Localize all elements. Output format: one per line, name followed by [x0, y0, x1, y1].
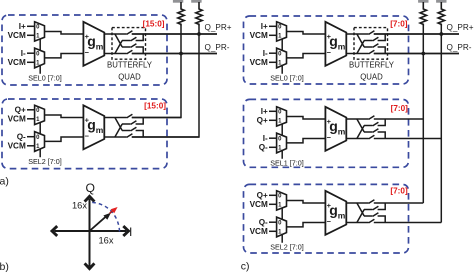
svg-text:VCM: VCM [8, 58, 26, 67]
panel c bottom channel blue dashed box [244, 184, 409, 253]
a-bot input stub Q+ [15, 106, 35, 115]
wire R3 down to c-bot row1 (via c-mid row1 junction) [422, 26, 424, 203]
svg-text:QUAD: QUAD [360, 73, 383, 82]
c-mid mux M2 (2:1, inputs 0/1) [277, 133, 287, 153]
c-mid switch S3 (row3) + wire to row4 [364, 129, 385, 139]
svg-text:16x: 16x [72, 200, 87, 210]
a-top input stub VCM [8, 58, 35, 67]
a-top input stub VCM [8, 31, 35, 40]
a-bot wire gm output row1 [104, 117, 126, 119]
junction R3/Q_PR- (panel c) [421, 52, 425, 56]
a-top wire gm output row4 [104, 53, 126, 55]
c-bot input stub VCM [250, 227, 277, 236]
a-top select line SEL0 [28, 39, 62, 83]
svg-text:−: − [327, 133, 332, 142]
svg-text:[7:0]: [7:0] [390, 19, 408, 28]
a-bot input stub Q- [17, 132, 35, 141]
a-bot input stub VCM [8, 142, 35, 151]
c-mid wire mux M2 output to gm - input [287, 139, 326, 143]
a-top switch S3 (row3) + wire to row4 [122, 44, 143, 54]
svg-text:VCM: VCM [8, 31, 26, 40]
svg-text:c): c) [241, 260, 250, 272]
svg-text:−: − [85, 48, 90, 57]
wire R4 down to c-bot row4 (via c-mid row4 junction) [440, 26, 442, 223]
svg-text:I+: I+ [261, 22, 268, 31]
svg-text:Q_PR+: Q_PR+ [447, 23, 474, 32]
op-amp U3 c-top transconductor gm [325, 22, 346, 66]
a-top mux M1 (2:1, inputs 0/1) [35, 22, 45, 41]
svg-text:[15:0]: [15:0] [144, 101, 166, 110]
panel b I axis [52, 225, 132, 239]
svg-text:SEL0 [7:0]: SEL0 [7:0] [28, 74, 62, 83]
c-top input stub VCM [250, 31, 277, 40]
c-bot switch S3 (row3) + wire to row4 [364, 213, 385, 223]
a-bot wire mux M1 output to gm + input [45, 115, 84, 118]
a-bot switch S1 (row1) [127, 114, 181, 118]
a-bot butterfly cross wires [115, 118, 122, 138]
svg-text:Q+: Q+ [15, 106, 26, 115]
c-bot input stub Q- [259, 218, 277, 227]
c-bot wire mux M1 output to gm + input [287, 201, 326, 204]
c-bot wire gm output row4 [346, 222, 368, 224]
svg-text:Q_PR-: Q_PR- [447, 43, 472, 52]
svg-text:VCM: VCM [8, 115, 26, 124]
c-mid input stub Q+ [257, 116, 277, 125]
c-top wire gm output row1 [346, 33, 368, 35]
node Q_PR- rail (panel c) [374, 43, 472, 53]
c-top input stub VCM [250, 58, 277, 67]
svg-text:[15:0]: [15:0] [143, 19, 165, 28]
a-top switch S1 (row1) [127, 31, 217, 35]
a-top input stub I+ [19, 22, 35, 31]
c-mid select line SEL1 [270, 124, 304, 168]
resistor R3 (panel c) [420, 2, 426, 26]
c-mid input stub Q- [259, 143, 277, 152]
c-top butterfly cross wires [357, 34, 364, 54]
a-bot input stub VCM [8, 115, 35, 124]
c-mid butterfly cross wires [357, 119, 364, 139]
node Q_PR+ rail (panel c) [374, 23, 474, 34]
c-top label BUTTERFLY QUAD [349, 61, 395, 82]
a-top butterfly cross wires [115, 34, 122, 54]
a-bot mux M2 (2:1, inputs 0/1) [35, 132, 45, 152]
c-bot wire mux M2 output to gm - input [287, 223, 326, 227]
svg-text:I-: I- [263, 134, 268, 143]
c-top select line SEL0 [270, 39, 304, 83]
c-bot switch S2 (row2) + wire to row1 [364, 203, 385, 210]
svg-text:VCM: VCM [8, 142, 26, 151]
c-mid switch S4 (row4) [369, 135, 442, 139]
c-bot butterfly cross wires [357, 203, 364, 223]
svg-text:Q_PR+: Q_PR+ [205, 23, 232, 32]
svg-text:[7:0]: [7:0] [390, 186, 408, 195]
svg-text:SEL1 [7:0]: SEL1 [7:0] [270, 159, 304, 168]
svg-text:b): b) [0, 261, 9, 272]
panel c middle channel blue dashed box [244, 99, 409, 167]
svg-text:Q: Q [86, 181, 95, 195]
c-top butterfly quad dashed box [354, 28, 388, 60]
a-bot switch S4 (row4) [127, 134, 199, 138]
a-bot mux M1 (2:1, inputs 0/1) [35, 105, 45, 124]
svg-text:−: − [327, 217, 332, 226]
op-amp U4 c-mid transconductor gm [325, 107, 346, 151]
c-mid switch S1 (row1) [369, 116, 424, 120]
svg-text:I-: I- [263, 49, 268, 58]
a-top wire mux M2 output to gm - input [45, 54, 84, 58]
a-bot wire gm output row4 [104, 136, 126, 138]
svg-text:SEL0 [7:0]: SEL0 [7:0] [270, 74, 304, 83]
panel b rotated vector (red arrow) [110, 207, 118, 214]
c-bot select line SEL2 [270, 208, 304, 252]
a-bot switch S3 (row3) + wire to row4 [122, 127, 143, 137]
c-top switch S3 (row3) + wire to row4 [364, 44, 385, 54]
panel b Q axis [85, 181, 95, 269]
c-mid mux M1 (2:1, inputs 0/1) [277, 107, 287, 126]
svg-text:−: − [85, 132, 90, 141]
c-bot switch S1 (row1) [369, 200, 424, 204]
svg-text:QUAD: QUAD [118, 73, 141, 82]
c-top switch S1 (row1) [369, 31, 459, 35]
wire R2 down to a-bot row4 [132, 26, 199, 137]
c-bot mux M1 (2:1, inputs 0/1) [277, 191, 287, 210]
c-top input stub I+ [261, 22, 277, 31]
svg-text:VCM: VCM [250, 58, 268, 67]
resistor R4 (panel c) [438, 2, 444, 26]
c-top wire mux M2 output to gm - input [287, 54, 326, 58]
panel c top channel blue dashed box [244, 16, 409, 84]
R4 (panel c) gray supply cap [436, 0, 446, 3]
svg-text:I+: I+ [19, 22, 26, 31]
c-top input stub I- [263, 49, 277, 58]
node Q_PR- rail (panel a) [132, 43, 230, 53]
svg-text:SEL2 [7:0]: SEL2 [7:0] [270, 243, 304, 252]
svg-text:VCM: VCM [250, 31, 268, 40]
op-amp U2 a-bot transconductor gm [83, 105, 104, 149]
svg-text:a): a) [0, 175, 9, 187]
svg-text:BUTTERFLY: BUTTERFLY [107, 61, 153, 70]
panel b signal vector (black) [90, 213, 112, 231]
panel a bottom channel blue dashed box [2, 99, 167, 169]
panel b dashed rotation arc [92, 202, 119, 234]
resistor R2 (panel a) [196, 2, 202, 26]
svg-text:Q_PR-: Q_PR- [205, 43, 230, 52]
svg-text:Q+: Q+ [257, 191, 268, 200]
a-top switch S2 (row2) + wire to row1 [122, 34, 143, 41]
c-mid wire gm output row1 [346, 118, 368, 120]
a-top mux M2 (2:1, inputs 0/1) [35, 48, 45, 68]
junction R1/Q_PR- (panel a) [179, 52, 183, 56]
a-top butterfly quad dashed box [112, 28, 146, 60]
svg-text:−: − [327, 48, 332, 57]
a-top wire mux M1 output to gm + input [45, 32, 84, 35]
a-top wire gm output row1 [104, 33, 126, 35]
c-top wire mux M1 output to gm + input [287, 32, 326, 35]
svg-text:Q-: Q- [259, 218, 268, 227]
svg-text:Q-: Q- [259, 143, 268, 152]
a-bot wire mux M2 output to gm - input [45, 137, 84, 141]
svg-text:BUTTERFLY: BUTTERFLY [349, 61, 395, 70]
c-mid wire gm output row4 [346, 138, 368, 140]
c-bot wire gm output row1 [346, 202, 368, 204]
c-mid input stub I+ [261, 107, 277, 116]
svg-text:VCM: VCM [250, 200, 268, 209]
svg-text:Q-: Q- [17, 132, 26, 141]
c-top mux M1 (2:1, inputs 0/1) [277, 22, 287, 41]
c-bot input stub VCM [250, 200, 277, 209]
R2 (panel a) gray supply cap [191, 0, 201, 3]
svg-text:I-: I- [21, 49, 26, 58]
wire R1 down to a-bot row1 [132, 26, 181, 118]
a-bot select line SEL2 [28, 123, 62, 167]
a-bot switch S2 (row2) + wire to row1 [122, 118, 143, 125]
c-top mux M2 (2:1, inputs 0/1) [277, 48, 287, 68]
c-bot switch S4 (row4) [369, 219, 442, 223]
op-amp U1 a-top transconductor gm [83, 22, 104, 66]
c-bot mux M2 (2:1, inputs 0/1) [277, 217, 287, 237]
R3 (panel c) gray supply cap [418, 0, 428, 3]
junction R4/Q_PR+ (panel c) [439, 32, 443, 36]
R1 (panel a) gray supply cap [173, 0, 183, 3]
c-top switch S2 (row2) + wire to row1 [364, 34, 385, 41]
node Q_PR+ rail (panel a) [132, 23, 232, 34]
op-amp U5 c-bot transconductor gm [325, 191, 346, 235]
svg-text:[7:0]: [7:0] [391, 104, 409, 113]
a-top label BUTTERFLY QUAD [107, 61, 153, 82]
svg-text:I+: I+ [261, 107, 268, 116]
c-mid input stub I- [263, 134, 277, 143]
a-top switch S4 (row4) [127, 50, 217, 54]
c-top switch S4 (row4) [369, 50, 459, 54]
svg-text:SEL2 [7:0]: SEL2 [7:0] [28, 157, 62, 166]
svg-text:I: I [129, 225, 132, 239]
c-mid switch S2 (row2) + wire to row1 [364, 119, 385, 126]
c-mid wire mux M1 output to gm + input [287, 117, 326, 120]
panel a top channel blue dashed box [2, 15, 167, 85]
svg-text:16x: 16x [99, 236, 114, 246]
junction R2/Q_PR+ (panel a) [197, 32, 201, 36]
c-top wire gm output row4 [346, 53, 368, 55]
a-top input stub I- [21, 49, 35, 58]
resistor R1 (panel a) [178, 2, 184, 26]
svg-text:VCM: VCM [250, 227, 268, 236]
svg-text:Q+: Q+ [257, 116, 268, 125]
c-bot input stub Q+ [257, 191, 277, 200]
